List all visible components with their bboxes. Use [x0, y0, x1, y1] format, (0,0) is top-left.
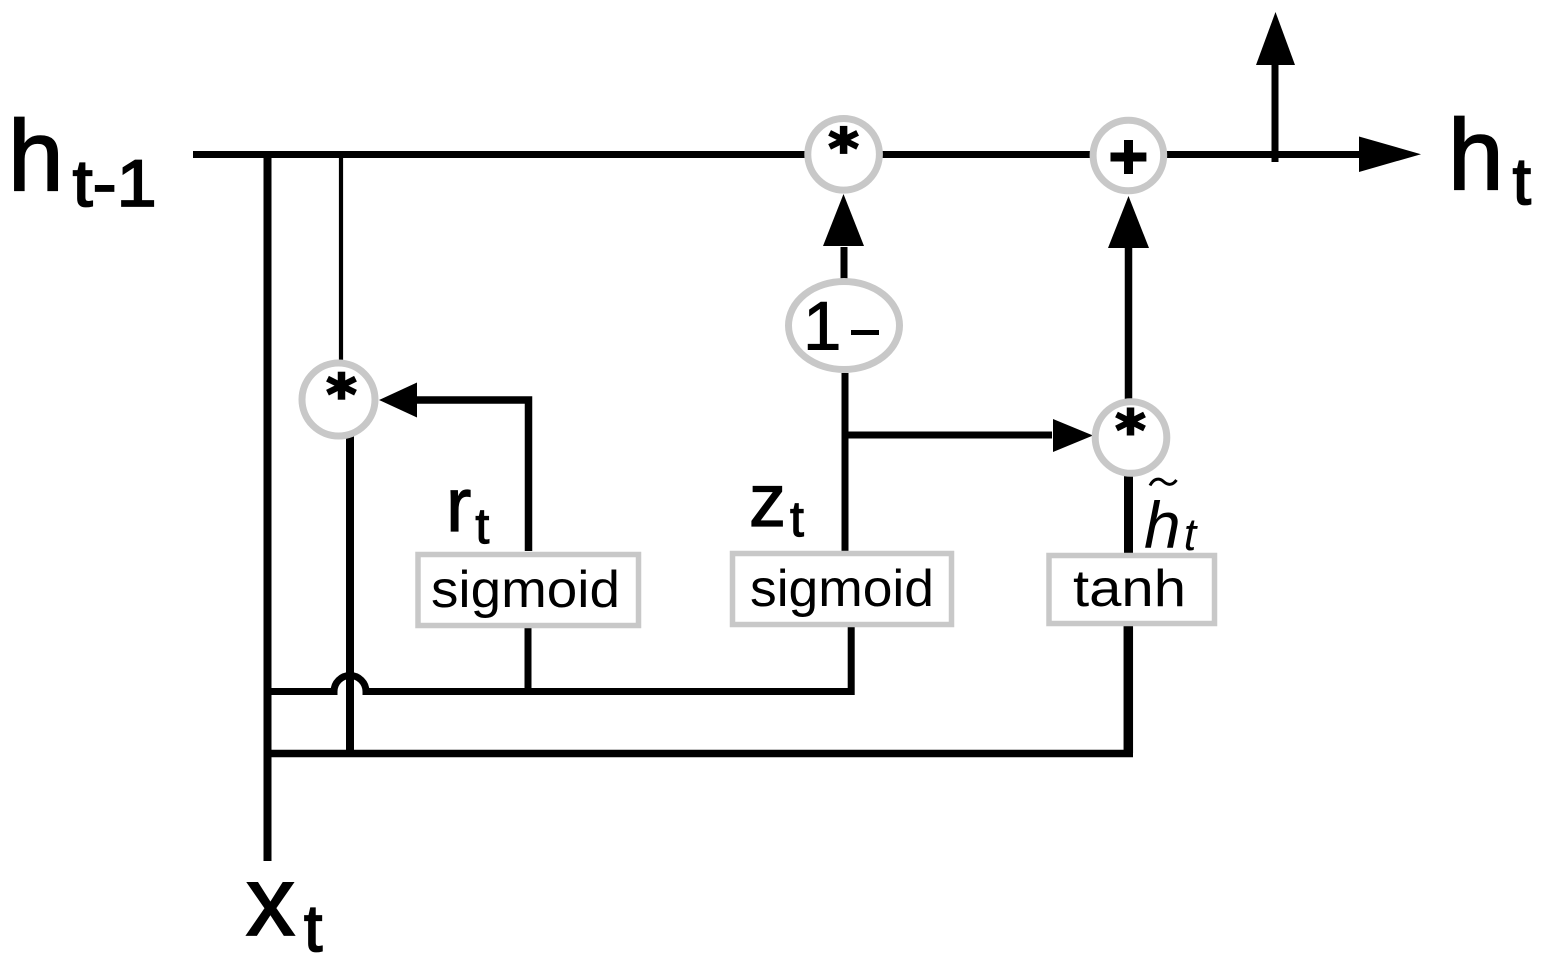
wire: h(t-1) top bus — [193, 137, 1421, 173]
op: plus circle — [1093, 120, 1164, 191]
box: z sigmoid — [733, 554, 952, 625]
svg-text:sigmoid: sigmoid — [750, 560, 934, 618]
op: top multiply circle — [808, 119, 880, 191]
wire: z vertical sigmoid top to 1- circle — [842, 373, 849, 551]
wire: bus2 to tanh — [264, 750, 1133, 758]
wire: left * output down to bus2 — [346, 432, 354, 753]
label: h~ t (candidate) — [1144, 479, 1199, 562]
op: right multiply circle — [1095, 402, 1167, 474]
wire: tanh top to right * — [1124, 474, 1133, 553]
wire: left trunk vertical (h_t-1 / x_t concat line) — [264, 154, 272, 861]
svg-text:tanh: tanh — [1073, 560, 1186, 618]
wire: r sigmoid bottom to bus1 — [525, 628, 532, 691]
wire: z branch arrow to right * — [845, 419, 1093, 452]
wire: bus1 concat line with hop, up to z sigmoid — [264, 627, 851, 692]
wire: r arrow from sigmoid top to left * — [379, 383, 529, 552]
wire: right * up arrow into + — [1108, 196, 1149, 400]
box: tanh — [1049, 556, 1215, 624]
op: left multiply circle — [302, 363, 375, 436]
svg-text:sigmoid: sigmoid — [431, 561, 620, 619]
op: 1- circle — [789, 282, 900, 370]
wire: 1- up arrow into top * — [823, 194, 864, 280]
svg-text:1: 1 — [803, 288, 841, 365]
wire: thin vertical into left * — [339, 154, 343, 370]
wire: output up arrow — [1256, 12, 1295, 162]
box: r sigmoid — [418, 555, 639, 626]
